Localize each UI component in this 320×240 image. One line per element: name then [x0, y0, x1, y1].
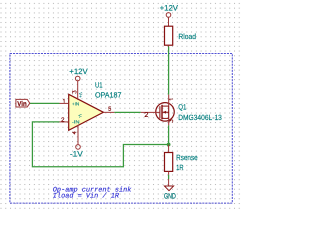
svg-text:Q1: Q1: [178, 103, 186, 112]
svg-text:Rload: Rload: [178, 32, 196, 41]
svg-text:Vin: Vin: [17, 100, 26, 108]
svg-text:Rsense: Rsense: [176, 153, 198, 162]
svg-text:Iload = Vin / 1R: Iload = Vin / 1R: [53, 193, 120, 201]
svg-text:+IN: +IN: [72, 102, 79, 107]
svg-text:1R: 1R: [176, 163, 184, 172]
svg-text:U1: U1: [95, 81, 103, 90]
svg-text:-IN: -IN: [72, 120, 80, 125]
svg-text:+12V: +12V: [160, 4, 179, 13]
svg-text:OPA187: OPA187: [95, 91, 122, 100]
svg-text:V-: V-: [77, 114, 82, 119]
svg-text:DMG3406L-13: DMG3406L-13: [178, 113, 222, 122]
svg-text:-1V: -1V: [70, 150, 84, 159]
svg-text:V+: V+: [78, 92, 83, 98]
svg-text:+12V: +12V: [69, 67, 88, 76]
svg-text:GND: GND: [164, 192, 176, 201]
